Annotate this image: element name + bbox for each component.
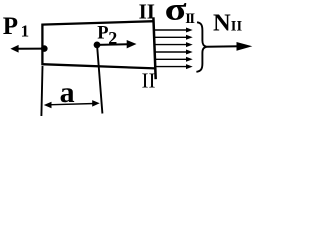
svg-text:II: II (185, 11, 195, 27)
stress arrow 3 (155, 44, 188, 46)
svg-text:P: P (97, 24, 108, 44)
stress arrow 1 (155, 29, 188, 31)
svg-text:II: II (231, 18, 243, 34)
stress arrow 4 (155, 51, 188, 53)
bar left edge (41, 24, 43, 66)
force P2 application dot (94, 42, 101, 49)
svg-text:II: II (142, 69, 156, 93)
force P1 application dot (41, 45, 48, 52)
force P2 arrow (97, 43, 129, 46)
dimension extension line right (97, 47, 102, 114)
svg-text:σ: σ (165, 0, 187, 27)
stress arrow 5 (155, 58, 188, 60)
svg-text:N: N (213, 10, 231, 37)
force P1 arrow (18, 48, 45, 50)
dimension extension line left (41, 66, 42, 116)
stress arrow 2 (155, 36, 188, 38)
brace (196, 22, 206, 72)
dimension line a (48, 104, 95, 105)
bar bottom edge (42, 64, 156, 68)
section line II-II (153, 17, 155, 79)
svg-text:1: 1 (21, 22, 30, 41)
svg-text:P: P (3, 13, 18, 40)
force N arrow (206, 45, 240, 47)
svg-text:II: II (139, 0, 155, 23)
svg-text:a: a (60, 76, 75, 109)
stress arrow 6 (155, 66, 188, 68)
bar top edge (42, 21, 155, 24)
